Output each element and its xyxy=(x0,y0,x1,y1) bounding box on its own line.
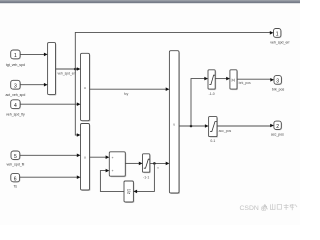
svg-text:veh_spd_fly: veh_spd_fly xyxy=(6,113,25,117)
svg-text:5: 5 xyxy=(14,154,17,160)
svg-text:tgt_veh_spd: tgt_veh_spd xyxy=(6,63,25,67)
wire in3 to mux xyxy=(20,83,47,87)
abs block B1 xyxy=(230,70,238,90)
svg-text:6: 6 xyxy=(14,176,17,182)
watermark CSDN xyxy=(240,204,298,212)
wire mux to F1 veh_spd_err xyxy=(56,67,81,75)
wire S2 to outport acc_pos xyxy=(217,124,274,133)
wire branch up to saturation S1 xyxy=(191,77,208,126)
svg-text:3: 3 xyxy=(276,79,279,85)
node veh_spd_err junction xyxy=(74,68,77,71)
function block F3 xyxy=(169,51,180,194)
inport 1 tgt_veh_spd xyxy=(6,50,25,67)
svg-text:+: + xyxy=(112,156,114,160)
wire feedback down to delay D1 xyxy=(133,163,154,193)
function block F2 xyxy=(81,124,91,192)
svg-text:brk_pos: brk_pos xyxy=(272,88,285,92)
svg-text:0-1: 0-1 xyxy=(210,139,215,143)
svg-text:4: 4 xyxy=(14,103,17,109)
top window border bar xyxy=(0,0,300,3)
wire abs to outport brk_pos xyxy=(237,78,274,85)
wire in4 to F1 xyxy=(20,102,80,106)
outport 2 acc_pos xyxy=(271,121,284,137)
wire S1 to abs B1 xyxy=(215,77,230,81)
svg-text:fcy: fcy xyxy=(124,92,129,96)
svg-text:act_veh_spd: act_veh_spd xyxy=(5,93,25,97)
svg-text:brk_pos: brk_pos xyxy=(239,81,251,85)
saturation S2 xyxy=(209,117,218,144)
svg-text:1: 1 xyxy=(14,53,17,59)
svg-text:1: 1 xyxy=(276,32,279,38)
wire sum to saturation S0 xyxy=(125,162,142,166)
wire in5 to F2 xyxy=(20,154,81,158)
wire F1 to F3 xyxy=(90,87,170,96)
svg-text:u: u xyxy=(84,86,86,90)
svg-text:Ts: Ts xyxy=(13,185,17,189)
saturation S0 xyxy=(143,154,151,180)
wire delay D1 to sum A1 xyxy=(100,169,124,192)
sum block A1 xyxy=(109,152,126,177)
svg-text:1/z: 1/z xyxy=(127,189,132,195)
wire S0 to F3 xyxy=(150,162,170,170)
svg-text:veh_spd_err: veh_spd_err xyxy=(270,41,290,45)
unit delay D1 xyxy=(124,181,134,203)
function block F1 xyxy=(81,53,91,121)
svg-text:+: + xyxy=(112,169,114,173)
wire F3 to saturation S2 xyxy=(179,124,209,128)
svg-text:acc_pos: acc_pos xyxy=(219,129,232,133)
inport 6 Ts xyxy=(11,173,21,188)
inport 5 veh_spd_fil xyxy=(7,151,25,166)
mux M1 xyxy=(48,43,57,96)
svg-text:-1-1: -1-1 xyxy=(143,175,149,179)
inport 4 veh_spd_flg xyxy=(6,100,25,117)
wire F2 to sum A1 xyxy=(90,155,110,159)
wire in1 to mux xyxy=(20,53,47,57)
wire branch down to F2 xyxy=(75,69,80,137)
wire branch up to outport 1 xyxy=(75,31,273,69)
outport 1 veh_spd_err xyxy=(270,29,290,45)
outport 3 brk_pos xyxy=(272,76,285,92)
node F3 output junction xyxy=(190,125,193,128)
svg-text:acc_pos: acc_pos xyxy=(271,133,284,137)
svg-text:-1-0: -1-0 xyxy=(209,92,215,96)
svg-text:2: 2 xyxy=(276,124,279,130)
wire in6 to F2 xyxy=(20,175,81,179)
node S0 output junction xyxy=(153,162,156,165)
svg-text:|u|: |u| xyxy=(231,78,235,82)
svg-text:veh_spd_err: veh_spd_err xyxy=(58,71,77,75)
svg-text:u: u xyxy=(173,122,175,126)
svg-text:veh_spd_fil: veh_spd_fil xyxy=(7,162,25,166)
inport 3 act_veh_spd xyxy=(5,80,25,97)
svg-text:u: u xyxy=(84,156,86,160)
saturation S1 xyxy=(208,70,216,96)
svg-text:3: 3 xyxy=(14,84,17,90)
